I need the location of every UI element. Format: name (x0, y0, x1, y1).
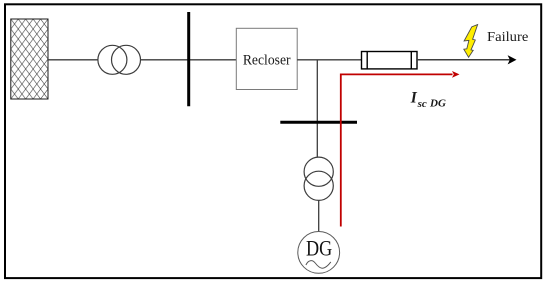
svg-text:DG: DG (429, 98, 446, 110)
fuse F1 (cartridge symbol) (362, 52, 418, 69)
bus bar (horizontal, DG bus) (280, 121, 357, 124)
feeder end arrowhead (508, 55, 517, 64)
label I_sc_DG (410, 90, 446, 110)
DG generator (circle with DG and sine wave) (298, 232, 340, 274)
bus bar (vertical, main substation bus) (187, 12, 190, 106)
wire: source to transformer T1 (48, 59, 98, 61)
svg-text:DG: DG (306, 236, 332, 261)
red fault-current path from DG (341, 74, 453, 226)
svg-text:sc: sc (417, 98, 427, 110)
recloser R (box) (236, 28, 297, 89)
wire: recloser to fuse (with junction tap) (297, 59, 361, 61)
wire: fuse to feeder end arrow (417, 59, 510, 61)
svg-text:I: I (410, 90, 418, 107)
wire: transformer T1 to recloser (141, 59, 237, 61)
red arrowhead (fault current direction) (452, 71, 460, 78)
transformer T1 (two overlapping circles on main feeder) (98, 45, 141, 74)
transformer T2 (two overlapping circles, DG interconnection) (304, 157, 333, 200)
svg-text:Failure: Failure (487, 30, 528, 45)
svg-text:Recloser: Recloser (243, 52, 291, 68)
junction wire down from feeder (316, 60, 318, 157)
wire: transformer T2 to DG (318, 200, 320, 231)
lightning bolt (failure flash) (464, 25, 478, 58)
grid source (hatched rectangle) (11, 19, 48, 99)
